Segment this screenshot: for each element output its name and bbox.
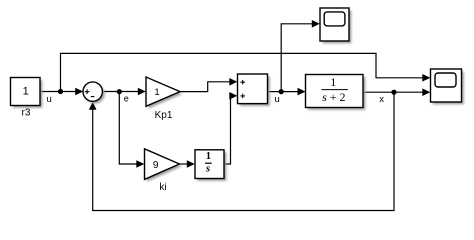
wire: branch from node e down to gain ki (119, 92, 138, 165)
svg-text:u: u (46, 94, 51, 105)
svg-text:s + 2: s + 2 (322, 90, 345, 104)
wire: feedback from node x down, across bottom, up to sum circle (93, 92, 394, 210)
sum block (rectangle) (238, 74, 270, 106)
wire: branch from node u2 up to scope1 (281, 24, 313, 92)
gain Kp1 triangle (146, 77, 182, 109)
arrowhead into sum circle bottom (89, 102, 97, 110)
arrowhead into sum block input 1 (229, 78, 237, 86)
node u1 junction dot (58, 89, 63, 94)
arrowhead into scope2 input 2 (422, 88, 430, 96)
integrator block 1/s (195, 150, 226, 181)
wire: gain ki output to integrator (180, 163, 189, 165)
arrowhead into scope1 (312, 20, 320, 28)
svg-text:e: e (124, 94, 129, 104)
arrowhead into gain ki (136, 160, 144, 168)
scope2 (right) (431, 69, 464, 104)
svg-text:x: x (379, 94, 384, 105)
arrowhead into transfer fcn (298, 88, 306, 96)
transfer fcn block 1/(s+2) (306, 75, 366, 110)
wire: integrator output up to sum block input 2 (224, 96, 231, 164)
svg-text:1: 1 (330, 75, 336, 89)
arrowhead into scope2 input 1 (422, 74, 430, 82)
svg-text:r3: r3 (22, 108, 31, 119)
svg-text:9: 9 (153, 160, 159, 171)
arrowhead into sum circle left (75, 88, 83, 96)
wire: branch from node u1 up and across to scope2 input 1 (61, 53, 425, 91)
arrowhead into sum block input 2 (229, 92, 237, 100)
svg-text:Kp1: Kp1 (155, 110, 173, 121)
svg-text:ki: ki (159, 182, 166, 193)
node e junction dot (117, 89, 122, 94)
constant block r3 (11, 78, 43, 108)
svg-text:s: s (205, 163, 210, 174)
scope1 (top) (320, 8, 351, 43)
sum junction circle (83, 82, 105, 104)
wire: r3 output to sum circle (40, 91, 76, 93)
wire: sum circle output to gain Kp1 (102, 91, 139, 93)
svg-text:1: 1 (206, 151, 211, 162)
wire: transfer fcn output to scope2 input 2 (363, 91, 424, 93)
wire: sum block output to transfer fcn (267, 91, 299, 93)
svg-text:u: u (275, 94, 280, 105)
node u2 junction dot (279, 89, 284, 94)
gain ki triangle (145, 149, 182, 182)
node x junction dot (391, 90, 396, 95)
svg-text:1: 1 (154, 87, 159, 98)
arrowhead into integrator (187, 160, 195, 168)
wire: gain Kp1 output to sum block input 1 (180, 82, 231, 92)
svg-text:1: 1 (23, 86, 29, 98)
arrowhead into gain Kp1 (138, 88, 146, 96)
